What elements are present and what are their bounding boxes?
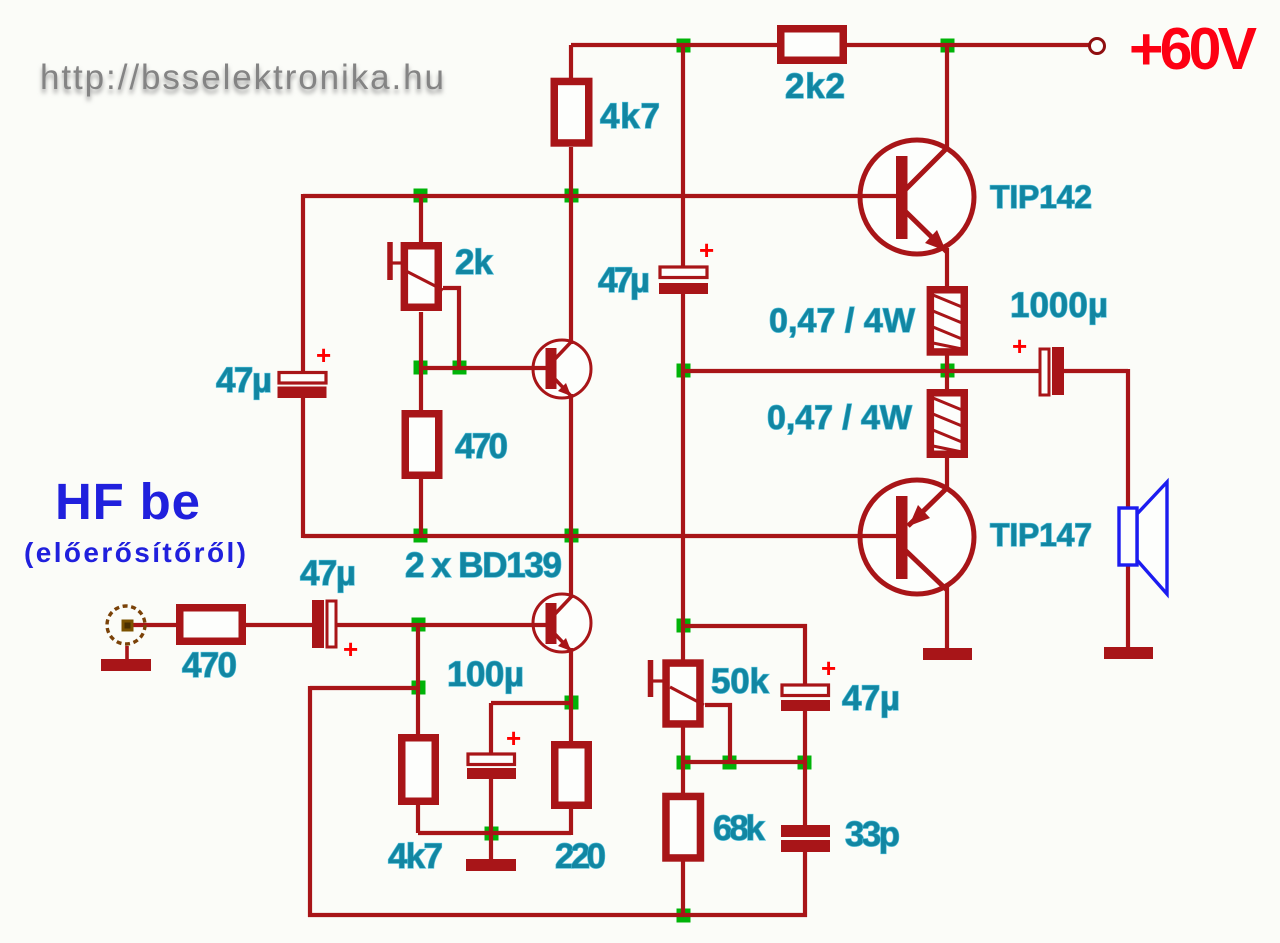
resistor 0.47 4W upper: [930, 290, 964, 352]
node y196 / 4k7-Q1 line: [565, 189, 579, 203]
wire x947 TIP147 collector to ground: [945, 586, 949, 650]
wire y371 output left: [683, 369, 1039, 373]
wire Cin to Q2 base: [336, 623, 546, 627]
capacitor C5 47u (x805): [781, 685, 830, 711]
wire x1128 speaker to ground: [1126, 565, 1130, 649]
svg-text:0,47 / 4W: 0,47 / 4W: [767, 399, 913, 437]
node 100u ground: [485, 827, 499, 841]
resistor 470 input: [180, 608, 243, 642]
node Q2 emitter: [565, 696, 579, 710]
svg-text:47µ: 47µ: [300, 554, 356, 593]
resistor 4k7 top: [554, 81, 589, 143]
ground 100u node: [466, 859, 516, 871]
svg-text:50k: 50k: [711, 662, 770, 701]
wire x571 Q1 emitter to Q2 collector: [569, 394, 573, 598]
svg-text:+: +: [316, 340, 331, 370]
transistor Q3 TIP142 internals: [896, 148, 947, 252]
node top rail / TIP142 collector: [941, 39, 955, 53]
svg-text:+: +: [699, 235, 714, 265]
wire Q1 base line: [421, 366, 546, 370]
node x683 / bottom wire: [677, 909, 691, 923]
transistor Q2 BD139 internals: [546, 596, 573, 652]
wire top rail +60V: [571, 43, 1090, 47]
wire y536 long horizontal to TIP147 base: [303, 534, 897, 538]
node wiper 50k / y762: [723, 756, 737, 770]
wire x571 4k7 to Q1 collector: [569, 147, 573, 344]
svg-text:100µ: 100µ: [447, 655, 524, 694]
node top rail / C3 line: [677, 39, 691, 53]
svg-text:2k: 2k: [455, 243, 494, 282]
wire x947 TIP142 emitter to R0.47: [945, 248, 949, 288]
capacitor C7 1000u: [1040, 347, 1064, 395]
wire x491 100u to ground node: [489, 779, 493, 833]
wire y371 output right of 1000u: [1063, 369, 1128, 373]
svg-text:4k7: 4k7: [388, 837, 443, 876]
svg-text:+: +: [506, 723, 521, 753]
wire x947 R0.47 to TIP147 emitter: [945, 458, 949, 489]
speaker: [1119, 482, 1167, 594]
node junction squares: [412, 39, 955, 923]
resistor 470 upper: [405, 414, 439, 476]
wire x491 to 100u: [489, 703, 493, 754]
hatch inside 0.47 upper: [933, 295, 962, 349]
node y371 / between 0.47 resistors: [941, 364, 955, 378]
wire x683 50k to 68k: [681, 727, 685, 793]
transistor Q3 TIP142 circle: [860, 140, 974, 254]
trimmer 50k body: [666, 663, 700, 724]
trimmer 2k body: [404, 246, 438, 308]
transistor Q4 TIP147 circle: [860, 480, 974, 594]
wire 470 to Cin: [246, 623, 313, 627]
wire x310 left loop: [308, 686, 312, 917]
resistor 0.47 4W lower: [930, 393, 964, 455]
wire x571 220 bottom: [569, 809, 573, 835]
capacitor C4 100u: [467, 754, 516, 779]
terminal +60V open circle: [1090, 39, 1105, 54]
wire x947 between 0.47 resistors: [945, 355, 949, 389]
svg-text:33p: 33p: [845, 815, 900, 854]
node y371 / C3 bottom: [677, 364, 691, 378]
wire x683 68k to bottom: [681, 860, 685, 915]
wire x421 2k to 470: [419, 312, 423, 410]
node input loop corner: [412, 681, 426, 695]
wire x421 470 to y536: [419, 479, 423, 538]
wire x805 C5 to y762: [803, 711, 807, 764]
wire 2k wiper vertical: [443, 288, 459, 368]
trimmer 50k screwdriver bar: [651, 660, 705, 705]
wire input RCA to 470: [133, 623, 177, 627]
capacitor C2 47u (x303): [278, 373, 327, 399]
wire x947 top rail to TIP142 collector: [945, 45, 949, 148]
ground TIP147 collector: [923, 648, 972, 660]
wire x303 upper: [301, 194, 305, 373]
svg-text:470: 470: [182, 646, 237, 685]
capacitor C3 47u (x683): [659, 267, 708, 294]
wire y688: [310, 686, 418, 690]
svg-text:HF be: HF be: [55, 473, 200, 530]
wire y833 emitter resistor bottom: [418, 831, 571, 835]
ground input RCA: [101, 659, 151, 671]
wire Q2 emitter node horizontal: [491, 701, 571, 705]
node y196 / 2k line: [414, 189, 428, 203]
node x683 / y762: [677, 756, 691, 770]
wire x683 top to C3: [681, 45, 685, 266]
ground speaker: [1104, 647, 1153, 659]
svg-text:+: +: [1012, 331, 1027, 361]
svg-text:47µ: 47µ: [842, 679, 900, 718]
wire x683 C3 to 50k: [681, 294, 685, 661]
svg-text:TIP147: TIP147: [990, 517, 1092, 553]
svg-text:(előerősítőről): (előerősítőről): [24, 537, 246, 568]
wire y915 bottom: [308, 913, 807, 917]
wire y626 to C5 branch: [683, 624, 807, 628]
capacitor C1 input 47u: [312, 600, 336, 648]
node Q1 base / 2k-470: [414, 361, 428, 375]
resistor 68k: [666, 796, 701, 858]
resistor 2k2: [781, 29, 844, 61]
transistor Q2 BD139 circle: [533, 594, 591, 652]
transistor Q4 TIP147 internals: [896, 488, 947, 590]
node y536 / 470 bottom: [414, 529, 428, 543]
node y536 / Q1-Q2: [565, 529, 579, 543]
resistor 4k7 bottom: [402, 738, 436, 802]
svg-text:68k: 68k: [713, 809, 766, 848]
hatch inside 0.47 lower: [933, 398, 962, 452]
wire x805 corner to C5: [803, 624, 807, 685]
node Q1 base / wiper: [453, 361, 467, 375]
wire 50k wiper: [705, 705, 730, 762]
svg-text:2k2: 2k2: [785, 67, 845, 106]
svg-text:470: 470: [455, 427, 508, 466]
svg-text:+: +: [821, 653, 836, 683]
input RCA connector: [107, 606, 145, 644]
svg-text:TIP142: TIP142: [990, 179, 1092, 215]
svg-text:220: 220: [555, 837, 606, 876]
wire x805 y762 to 33p: [803, 762, 807, 826]
wire x303 lower: [301, 397, 305, 538]
svg-text:47µ: 47µ: [216, 361, 272, 400]
svg-text:+60V: +60V: [1129, 16, 1257, 82]
wire RCA ground stub: [125, 646, 129, 660]
wire x421 top to 2k: [419, 194, 423, 242]
svg-text:http://bsselektronika.hu: http://bsselektronika.hu: [40, 58, 444, 97]
wire y762 row: [683, 760, 805, 764]
node x683 / wire to C5: [677, 619, 691, 633]
wire y196 long horizontal to TIP142 base: [303, 194, 897, 198]
svg-text:47µ: 47µ: [598, 261, 650, 300]
wire x491 ground stub: [489, 833, 493, 860]
wire x1128 to speaker: [1126, 369, 1130, 508]
wire x418 down to 4k7: [416, 625, 420, 735]
wire x571 Q2 emitter to 220: [569, 648, 573, 741]
resistor 220: [555, 745, 589, 806]
wire x418 4k7 bottom: [416, 805, 420, 833]
trimmer 2k screwdriver bar: [390, 242, 443, 290]
wire x805 33p to bottom: [803, 851, 807, 917]
node C5-33p / y762: [798, 756, 812, 770]
svg-text:4k7: 4k7: [600, 97, 660, 136]
transistor Q1 BD139 internals: [546, 341, 573, 397]
svg-text:1000µ: 1000µ: [1010, 286, 1108, 325]
wire 4k7 top stub: [569, 45, 573, 79]
transistor Q1 BD139 circle: [533, 340, 591, 398]
svg-text:+: +: [343, 634, 358, 664]
svg-text:0,47 / 4W: 0,47 / 4W: [769, 302, 916, 340]
node input / Q2 base: [412, 618, 426, 632]
svg-text:2 x BD139: 2 x BD139: [405, 546, 562, 585]
capacitor C6 33p: [781, 825, 830, 852]
